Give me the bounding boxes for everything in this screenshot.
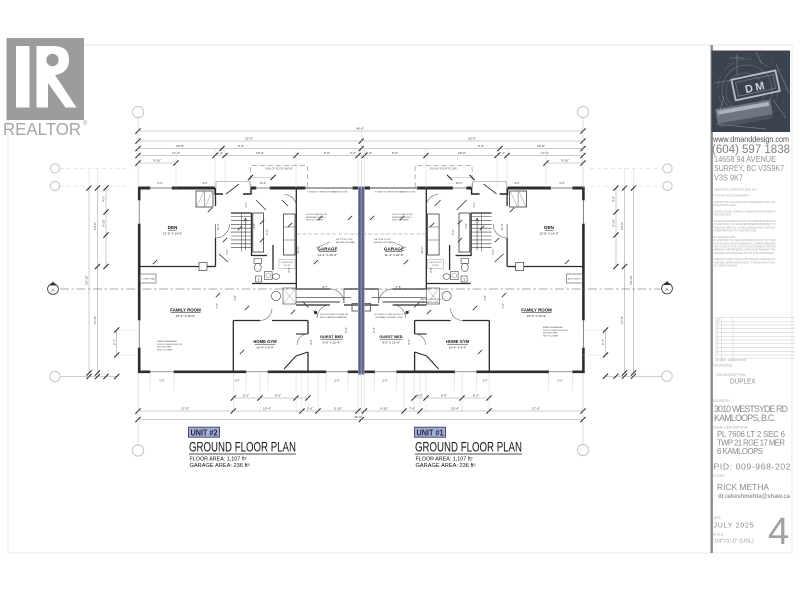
svg-text:GROUND FLOOR PLAN: GROUND FLOOR PLAN: [415, 440, 522, 455]
svg-text:17'-2": 17'-2": [541, 151, 549, 155]
svg-text:***DO NOT SCALE DRAWINGS***: ***DO NOT SCALE DRAWINGS***: [714, 194, 751, 198]
svg-text:JULY 2025: JULY 2025: [714, 523, 754, 530]
section line A-A: [48, 281, 673, 294]
room label HOME GYM unit1: [446, 339, 470, 349]
title block left border bar: [711, 45, 713, 553]
svg-text:MAX 4.8L/FLUSH: MAX 4.8L/FLUSH: [420, 301, 438, 304]
svg-text:FAMILY ROOM: FAMILY ROOM: [521, 308, 552, 313]
note garage door unit2: [307, 191, 347, 194]
svg-text:5'-0": 5'-0": [334, 379, 339, 383]
unit #1 plan geometry (right, mirrored): [361, 166, 585, 374]
svg-text:1/4"=1'-0" (USL): 1/4"=1'-0" (USL): [714, 539, 754, 545]
svg-text:15'-4": 15'-4": [263, 406, 271, 410]
svg-text:4'-0": 4'-0": [612, 196, 616, 202]
svg-text:5'-0": 5'-0": [382, 379, 387, 383]
svg-text:19'-10": 19'-10": [85, 275, 89, 285]
svg-text:SELF CLOSER: SELF CLOSER: [157, 349, 172, 351]
svg-text:3'-6": 3'-6": [244, 202, 248, 208]
top dimension row 3: [135, 144, 585, 151]
svg-text:4: 4: [768, 511, 789, 553]
PID: [714, 462, 791, 472]
svg-text:6 KAMLOOPS: 6 KAMLOOPS: [717, 447, 763, 456]
svg-text:9'-10": 9'-10": [561, 158, 569, 162]
svg-text:85MM PREHEATED: 85MM PREHEATED: [543, 326, 563, 329]
svg-text:FLOOR AREA: 1,107 ft²: FLOOR AREA: 1,107 ft²: [190, 457, 247, 463]
left vertical dimension column 4: [112, 327, 119, 357]
svg-text:3'-8": 3'-8": [464, 223, 468, 229]
svg-text:12'-2": 12'-2": [500, 223, 504, 230]
svg-text:4'-0": 4'-0": [102, 196, 106, 202]
svg-text:GUEST BED: GUEST BED: [379, 334, 402, 339]
svg-text:5'-2": 5'-2": [243, 393, 249, 397]
svg-text:GROUND FLOOR PLAN: GROUND FLOOR PLAN: [189, 440, 296, 455]
svg-text:ADDRESS:: ADDRESS:: [713, 399, 730, 403]
sheet number 4: [768, 511, 789, 553]
interior tick marks: [153, 208, 569, 354]
svg-text:9'-0" X 12'-4": 9'-0" X 12'-4": [382, 340, 400, 344]
note family room unit2: [157, 340, 182, 351]
svg-text:V3S 9K7: V3S 9K7: [714, 174, 744, 183]
svg-text:15'-4": 15'-4": [451, 406, 459, 410]
svg-text:6'-2": 6'-2": [473, 393, 479, 397]
svg-text:EA SIDE 2X4 WALL: EA SIDE 2X4 WALL: [336, 241, 356, 244]
svg-text:6'-0": 6'-0": [275, 393, 281, 397]
legal fine print: [714, 188, 776, 268]
svg-text:5/8 TYPE X GYP: 5/8 TYPE X GYP: [374, 239, 391, 241]
revision table: [716, 318, 795, 362]
room label FAMILY ROOM unit1: [521, 308, 552, 318]
svg-text:GRADING AND DRAINAGE TO SUIT S: GRADING AND DRAINAGE TO SUIT SITE CONDIT…: [714, 251, 775, 255]
svg-text:5'-4": 5'-4": [238, 144, 244, 148]
left dims footer row: [50, 371, 120, 381]
svg-text:5'-10": 5'-10": [334, 406, 342, 410]
svg-text:9'-10": 9'-10": [153, 158, 161, 162]
left side bubbles: [50, 164, 131, 191]
scale: [712, 533, 754, 545]
date: [712, 516, 754, 530]
svg-text:18'-8": 18'-8": [537, 144, 545, 148]
svg-text:10'-4" X 9'-9": 10'-4" X 9'-9": [449, 345, 467, 349]
svg-text:2'-6": 2'-6": [429, 267, 433, 273]
svg-text:5'-0": 5'-0": [157, 181, 162, 185]
interior rotated dims: [215, 202, 505, 345]
UNIT #2 title + GROUND FLOOR PLAN: [189, 427, 220, 437]
svg-text:17'-0": 17'-0": [532, 406, 540, 410]
svg-text:3'-10": 3'-10": [612, 219, 616, 227]
top dimension row 5 right: [543, 158, 585, 165]
svg-text:DATE:: DATE:: [712, 516, 722, 520]
svg-text:12'-2": 12'-2": [216, 223, 220, 230]
svg-text:SOLID CORE DOOR ON: SOLID CORE DOOR ON: [157, 344, 182, 346]
svg-text:5/8 TYPE X GYP: 5/8 TYPE X GYP: [336, 239, 353, 241]
svg-text:15'-2" X 19'-9": 15'-2" X 19'-9": [527, 314, 547, 318]
client: [713, 474, 791, 500]
phone number: [712, 144, 790, 156]
svg-text:19'-10": 19'-10": [629, 275, 633, 285]
svg-text:11'-4" X 20'-0": 11'-4" X 20'-0": [384, 253, 403, 257]
svg-text:18'-0": 18'-0": [458, 151, 466, 155]
svg-text:3'-0": 3'-0": [514, 181, 519, 185]
centre extension line: [360, 131, 362, 188]
svg-text:12'-8" X 14'-0": 12'-8" X 14'-0": [539, 231, 559, 235]
svg-text:5'-6": 5'-6": [451, 229, 455, 235]
svg-text:SELF CLOSER: SELF CLOSER: [543, 335, 558, 337]
job description: [716, 373, 756, 386]
legal description: [713, 426, 786, 457]
svg-text:9'-6": 9'-6": [392, 151, 398, 155]
svg-text:MOTION SEN.: MOTION SEN.: [157, 347, 172, 349]
svg-text:HOME GYM: HOME GYM: [446, 339, 470, 344]
note solid core door unit1: [392, 214, 413, 222]
grid bubble top left: [132, 106, 143, 188]
svg-text:2'-8": 2'-8": [233, 295, 237, 301]
svg-text:46'-0": 46'-0": [356, 126, 364, 130]
svg-text:6'-6": 6'-6": [441, 393, 447, 397]
svg-text:GARAGE AREA: 236 ft²: GARAGE AREA: 236 ft²: [190, 463, 250, 469]
svg-text:# DATE DESCRIPTION: # DATE DESCRIPTION: [717, 358, 747, 362]
svg-text:11'-4" X 20'-0": 11'-4" X 20'-0": [318, 253, 337, 257]
svg-text:3'-0": 3'-0": [491, 249, 495, 255]
svg-text:18'-8": 18'-8": [176, 144, 184, 148]
svg-text:GARAGE: GARAGE: [384, 247, 404, 252]
svg-text:10'-4" X 9'-9": 10'-4" X 9'-9": [256, 345, 274, 349]
DMD design logo box: [712, 51, 791, 133]
svg-text:17'-8": 17'-8": [93, 316, 97, 324]
svg-text:LEGAL DESCRIPTION:: LEGAL DESCRIPTION:: [713, 426, 749, 430]
svg-text:12'-8" X 14'-0": 12'-8" X 14'-0": [163, 231, 183, 235]
bottom dimension row mid: [135, 406, 585, 413]
svg-text:CLIENT:: CLIENT:: [713, 474, 726, 478]
svg-text:16'-0": 16'-0": [456, 181, 463, 185]
svg-text:13'-2": 13'-2": [93, 222, 97, 230]
svg-text:5'-0": 5'-0": [559, 181, 564, 185]
svg-text:9'-0" X 12'-4": 9'-0" X 12'-4": [323, 340, 341, 344]
svg-text:3'-8": 3'-8": [252, 223, 256, 229]
svg-text:dr.rakeshmehta@shaw.ca: dr.rakeshmehta@shaw.ca: [718, 494, 791, 500]
svg-text:5'-4": 5'-4": [478, 144, 484, 148]
svg-text:SOLID CORE DOOR: SOLID CORE DOOR: [392, 214, 413, 216]
party wall (fire-rated, blue): [358, 187, 365, 375]
svg-text:CONSTRUCTION.: CONSTRUCTION.: [714, 213, 732, 217]
extension lines top: [176, 148, 546, 188]
svg-text:HOME GYM: HOME GYM: [253, 339, 277, 344]
left vertical dimension column 2: [93, 168, 100, 376]
svg-text:20'-0": 20'-0": [296, 246, 300, 253]
svg-text:RICK METHA: RICK METHA: [717, 482, 769, 492]
svg-text:SCALE:: SCALE:: [712, 533, 724, 537]
room label GUEST BED unit1: [379, 334, 402, 344]
svg-text:5'-4": 5'-4": [372, 327, 376, 333]
svg-text:UNIT #2: UNIT #2: [191, 428, 218, 437]
svg-text:GUEST BED: GUEST BED: [320, 334, 343, 339]
svg-text:13'-2": 13'-2": [620, 222, 624, 230]
svg-text:2'-4": 2'-4": [217, 151, 223, 155]
room label FAMILY ROOM unit2: [170, 308, 201, 318]
right vertical dimension column 2: [620, 168, 627, 376]
right vertical dimension column 4: [601, 327, 608, 357]
note gypsum party wall unit2: [336, 239, 356, 244]
project address: [713, 399, 789, 423]
office address: [714, 155, 784, 183]
top dimension row 5 left: [135, 158, 178, 165]
svg-text:3'-0": 3'-0": [202, 181, 207, 185]
svg-text:BUILDING BY-LAWS.: BUILDING BY-LAWS.: [714, 203, 737, 207]
UNIT #1 title + GROUND FLOOR PLAN: [415, 427, 446, 437]
top dimension row unit widths: [135, 136, 585, 143]
bottom dimension row inner: [231, 393, 311, 400]
room label GARAGE unit2: [317, 247, 337, 257]
svg-text:KAMLOOPS, B.C.: KAMLOOPS, B.C.: [714, 413, 776, 423]
svg-text:46'-0": 46'-0": [354, 415, 362, 419]
svg-text:23'-0": 23'-0": [245, 136, 253, 140]
svg-text:18'-0": 18'-0": [256, 151, 264, 155]
svg-text:9'-0": 9'-0": [407, 339, 411, 345]
REALTOR logo: [3, 38, 88, 139]
svg-text:85MM PREHEATED: 85MM PREHEATED: [157, 340, 177, 343]
svg-text:UNIT #1: UNIT #1: [417, 428, 444, 437]
svg-text:SOLID CORE DOOR ON: SOLID CORE DOOR ON: [543, 330, 568, 332]
note family room unit1: [543, 326, 568, 337]
svg-text:2'-8": 2'-8": [483, 295, 487, 301]
svg-text:7'-2": 7'-2": [215, 303, 219, 309]
svg-text:MOTION SEN.: MOTION SEN.: [543, 333, 558, 335]
svg-text:SURREY, BC V3S9K7: SURREY, BC V3S9K7: [714, 164, 784, 173]
svg-text:REALTOR: REALTOR: [3, 119, 81, 139]
svg-text:2'-0": 2'-0": [366, 151, 372, 155]
svg-text:2'-4": 2'-4": [499, 151, 505, 155]
svg-text:9'-10": 9'-10": [380, 406, 388, 410]
svg-text:www.dmanddesign.com: www.dmanddesign.com: [712, 135, 789, 144]
room label HOME GYM unit2: [253, 339, 277, 349]
svg-text:®: ®: [83, 119, 88, 127]
svg-text:PID: 009-968-202: PID: 009-968-202: [714, 462, 791, 472]
svg-text:7'-2": 7'-2": [501, 303, 505, 309]
top dimension row overall: [135, 126, 585, 133]
note garage door unit1: [375, 191, 415, 194]
svg-text:TO COMPLY BUILDER.: TO COMPLY BUILDER.: [714, 264, 739, 268]
svg-text:FAMILY ROOM: FAMILY ROOM: [170, 308, 201, 313]
svg-text:2'-7": 2'-7": [601, 339, 605, 345]
svg-text:GARAGE: GARAGE: [317, 247, 337, 252]
svg-text:3'-6": 3'-6": [472, 202, 476, 208]
right vertical dimension column outer: [629, 168, 636, 376]
room label DEN unit1: [539, 225, 559, 235]
website: [712, 135, 789, 144]
svg-text:WATER CONSV. W.C.: WATER CONSV. W.C.: [420, 298, 442, 301]
room label GARAGE unit1: [384, 247, 404, 257]
svg-text:20'-0": 20'-0": [420, 246, 424, 253]
svg-text:2'-0": 2'-0": [350, 151, 356, 155]
svg-text:3'-0": 3'-0": [234, 379, 239, 383]
svg-text:5'-0": 5'-0": [159, 379, 164, 383]
svg-text:EA SIDE 2X4 WALL: EA SIDE 2X4 WALL: [374, 241, 394, 244]
grid bubble bottom right: [577, 373, 588, 456]
svg-text:DUPLEX: DUPLEX: [730, 377, 756, 386]
extension lines bottom: [150, 373, 573, 420]
small dims below bottom wall: [159, 379, 562, 383]
svg-text:16'-0": 16'-0": [260, 181, 267, 185]
svg-text:9' WIDE X 8' HIGH O/H GARAGE D: 9' WIDE X 8' HIGH O/H GARAGE DOOR: [307, 191, 347, 194]
note solid core door unit2: [306, 214, 327, 222]
svg-text:5'-4": 5'-4": [344, 327, 348, 333]
svg-text:AT/BEFORE PRIOR TO CONSTRUCTIO: AT/BEFORE PRIOR TO CONSTRUCTION.: [714, 229, 757, 233]
svg-text:GARAGE AREA: 236 ft²: GARAGE AREA: 236 ft²: [416, 463, 476, 469]
svg-text:REVISIONS: REVISIONS: [714, 364, 733, 368]
right vertical dimension column 3: [612, 185, 619, 269]
left vertical dimension column 3: [102, 185, 109, 269]
svg-text:5'-6": 5'-6": [265, 229, 269, 235]
grid bubble top right: [577, 106, 588, 188]
left vertical dimension column outer: [85, 168, 92, 376]
svg-text:2'-6": 2'-6": [287, 267, 291, 273]
svg-text:9'-6": 9'-6": [324, 151, 330, 155]
svg-text:5'-0": 5'-0": [557, 379, 562, 383]
unit #2 plan geometry (left): [137, 166, 361, 374]
svg-text:DEN: DEN: [544, 225, 554, 230]
svg-text:3'-10": 3'-10": [102, 219, 106, 227]
svg-text:SOLID CORE DOOR: SOLID CORE DOOR: [306, 214, 327, 216]
room label GUEST BED unit2: [320, 334, 343, 344]
small dims above walls: [157, 181, 564, 185]
note water closet unit1: [420, 298, 442, 304]
right dims footer row: [603, 371, 672, 381]
svg-text:THESE PLANS CONFORM TO BCBC 20: THESE PLANS CONFORM TO BCBC 2024: [714, 188, 758, 192]
room label DEN unit2: [163, 225, 183, 235]
svg-text:15'-2" X 19'-9": 15'-2" X 19'-9": [176, 314, 196, 318]
svg-text:17'-8": 17'-8": [620, 316, 624, 324]
svg-text:3'-0": 3'-0": [482, 379, 487, 383]
svg-text:23'-0": 23'-0": [468, 136, 476, 140]
svg-text:SELF CLOSURE: SELF CLOSURE: [306, 220, 323, 222]
top dimension row 4: [135, 151, 585, 158]
svg-text:14658 94 AVENUE: 14658 94 AVENUE: [714, 155, 776, 164]
note gypsum party wall unit1: [374, 239, 394, 244]
bottom dimension row overall: [135, 415, 585, 422]
svg-text:FLOOR AREA: 1,107 ft²: FLOOR AREA: 1,107 ft²: [416, 457, 473, 463]
svg-text:3'-0": 3'-0": [225, 249, 229, 255]
svg-text:9'-0": 9'-0": [309, 339, 313, 345]
svg-text:DEN: DEN: [168, 225, 178, 230]
svg-text:9' WIDE X 8' HIGH O/H GARAGE D: 9' WIDE X 8' HIGH O/H GARAGE DOOR: [375, 191, 415, 194]
svg-text:WEATHER STRIP &: WEATHER STRIP &: [306, 216, 326, 219]
right side bubbles: [590, 164, 672, 191]
grid bubble bottom left: [132, 373, 143, 456]
svg-text:2'-7": 2'-7": [112, 339, 116, 345]
svg-text:17'-0": 17'-0": [181, 406, 189, 410]
